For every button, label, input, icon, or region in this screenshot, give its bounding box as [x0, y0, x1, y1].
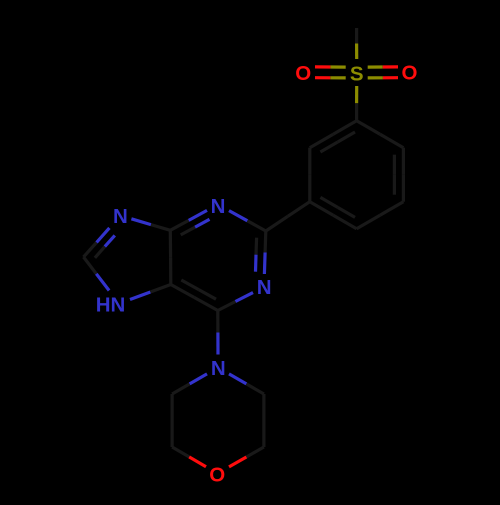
- bond C4=N3: [170, 210, 209, 235]
- bond morpholine C-C right: [262, 394, 265, 447]
- bond C5-C4: [169, 230, 173, 284]
- bond morpholine O-C left: [172, 447, 206, 467]
- bond C6=C5: [171, 280, 218, 311]
- bond morpholine C-O right: [229, 447, 264, 467]
- svg-text:O: O: [295, 62, 311, 85]
- bond morpholine C-N left: [172, 374, 207, 394]
- bond C4-N7: [131, 219, 170, 231]
- svg-text:S: S: [350, 62, 364, 85]
- bond S=O left (double): [315, 67, 346, 78]
- svg-text:O: O: [209, 463, 225, 486]
- bond morpholine C-C left: [171, 394, 174, 447]
- svg-text:N: N: [211, 195, 226, 218]
- svg-text:HN: HN: [96, 293, 126, 316]
- bond S=O right (double): [368, 67, 398, 78]
- bond N1-C6: [218, 293, 253, 311]
- bond N7=C8: [84, 228, 115, 258]
- bond benzene C1-C2: [357, 121, 404, 148]
- svg-text:N: N: [211, 357, 226, 380]
- bond N9-C5: [130, 285, 171, 300]
- bond benzene C2-C3: [394, 148, 403, 202]
- bond benzene C6-C1: [310, 121, 357, 152]
- bond C6-N morpholine: [216, 311, 219, 355]
- bond CH3-S: [355, 28, 358, 59]
- bond benzene C4-C5: [310, 197, 357, 228]
- svg-text:N: N: [113, 205, 128, 228]
- bond S-phenyl: [355, 86, 358, 121]
- bond N3-C2: [229, 211, 266, 231]
- bond C2=N1: [256, 231, 266, 274]
- bond phenyl-C2 link: [266, 202, 310, 231]
- bond benzene C5-C6: [308, 148, 311, 202]
- bond C8-N9: [84, 257, 110, 291]
- bond benzene C3-C4: [357, 202, 404, 229]
- bond morpholine N-C right: [229, 374, 264, 394]
- svg-text:O: O: [402, 62, 418, 85]
- svg-text:N: N: [257, 276, 272, 299]
